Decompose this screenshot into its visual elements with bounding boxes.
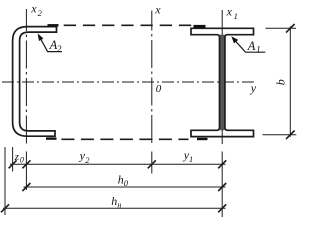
svg-text:н: н [117,200,121,209]
I-beam web interior (dark scanned band) [220,35,224,131]
dimension row 1 line (z0 / y2 / y1) [10,163,226,165]
label z0 [14,151,24,165]
label x2 [30,2,42,19]
svg-text:0: 0 [20,155,24,164]
tick row1 at x [148,160,156,168]
channel section (left chord) [13,27,57,137]
tick b top [286,24,295,33]
dimension b: dimension line [289,26,291,137]
svg-text:2: 2 [57,45,62,55]
svg-text:z: z [14,151,20,163]
label A1 [247,39,261,55]
svg-text:x: x [30,2,37,16]
svg-text:0: 0 [124,178,129,188]
svg-text:1: 1 [256,46,261,56]
label y1 [183,148,194,164]
svg-text:2: 2 [85,155,90,165]
label h_n [111,194,121,210]
weld bar, I-beam top flange tip [194,25,206,28]
label h0 [118,172,129,188]
weld bar, channel bottom flange tip [46,137,57,139]
svg-text:x: x [154,2,161,16]
label y2 [79,149,91,165]
svg-text:0: 0 [156,83,162,95]
svg-text:1: 1 [189,154,193,164]
svg-text:1: 1 [234,11,238,21]
batten outline bottom (hidden dashed line) [61,138,188,140]
tick row3 at left [1,204,9,212]
dimension row 3 line (h_n) [3,207,226,209]
svg-text:h: h [111,194,117,208]
tick row3 at x1 [218,204,226,212]
I-beam section (right chord): top flange [191,28,254,136]
label A2 [49,38,62,55]
batten outline top (hidden dashed line) [64,24,192,26]
leader A2 arrow [38,33,62,51]
dimension b: extension line top [266,27,297,29]
weld bar, I-beam bottom flange tip [197,138,208,140]
svg-text:x: x [226,5,233,19]
axis y (horizontal dash-dot) [2,81,255,83]
dimension row 2 line (h0) [24,186,226,188]
svg-text:y: y [250,81,257,95]
tick row2 at x1 [218,183,226,191]
svg-text:A: A [247,39,256,53]
svg-text:b: b [274,79,288,85]
tick b bottom [286,131,295,140]
weld bar, channel top flange tip [48,24,59,26]
leader A1 arrow [231,36,265,52]
tick row1 at x2 [22,160,30,168]
dimension b: extension line bottom [263,134,297,136]
tick row1 at x1 [218,160,226,168]
tick row1 at web face [9,160,17,168]
extension line channel web face (for z0) [12,147,14,172]
axis x2 (channel centroid axis, vertical dash-dot) [25,9,27,190]
tick row2 at x2 [22,183,30,191]
axis x (central vertical dash-dot) [151,11,153,146]
label x1 [226,5,238,22]
extension line left outer (for h_n) [4,147,6,215]
svg-text:2: 2 [38,8,43,18]
axis x1 (I-beam centroid axis, vertical dash-dot) [221,10,223,144]
